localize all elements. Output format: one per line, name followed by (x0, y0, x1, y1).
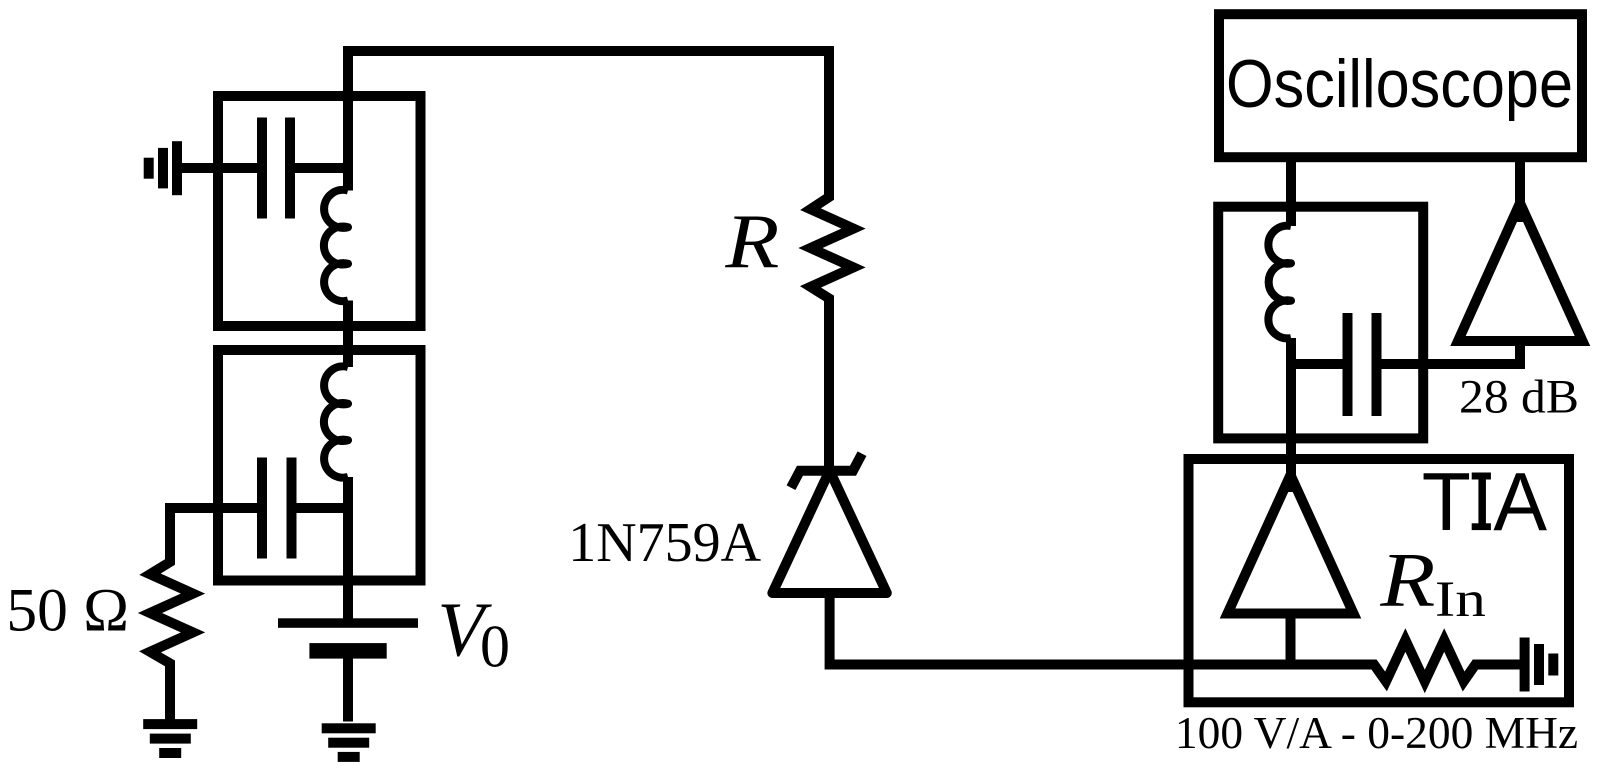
svg-text:100 V/A - 0-200 MHz: 100 V/A - 0-200 MHz (1175, 708, 1578, 758)
svg-text:TIA: TIA (1422, 455, 1548, 548)
svg-text:In: In (1435, 572, 1486, 628)
svg-text:0: 0 (480, 614, 510, 680)
svg-text:1N759A: 1N759A (568, 512, 761, 574)
svg-text:R: R (724, 198, 779, 284)
svg-text:R: R (1379, 537, 1435, 623)
svg-text:Oscilloscope: Oscilloscope (1226, 46, 1573, 122)
svg-text:50 Ω: 50 Ω (6, 577, 129, 645)
svg-text:28 dB: 28 dB (1459, 371, 1579, 424)
